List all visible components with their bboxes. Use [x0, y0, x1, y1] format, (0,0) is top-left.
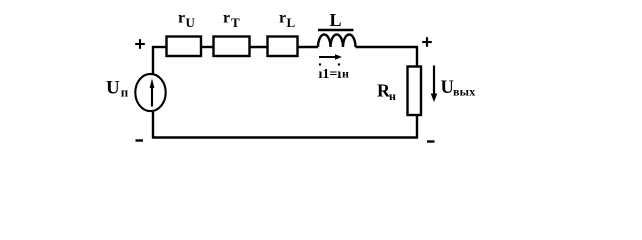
svg-text:L: L — [287, 15, 296, 30]
svg-text:п: п — [121, 85, 129, 100]
svg-text:r: r — [178, 10, 185, 27]
svg-text:н: н — [389, 89, 396, 103]
svg-text:U: U — [441, 78, 454, 98]
svg-text:ı1=ı: ı1=ı — [319, 67, 342, 82]
svg-text:U: U — [186, 15, 196, 30]
svg-text:н: н — [342, 67, 349, 81]
svg-text:L: L — [330, 10, 342, 30]
svg-text:T: T — [231, 15, 240, 30]
svg-text:вых: вых — [453, 85, 475, 99]
svg-text:U: U — [106, 78, 120, 99]
svg-text:r: r — [223, 10, 230, 27]
svg-text:r: r — [279, 10, 286, 27]
